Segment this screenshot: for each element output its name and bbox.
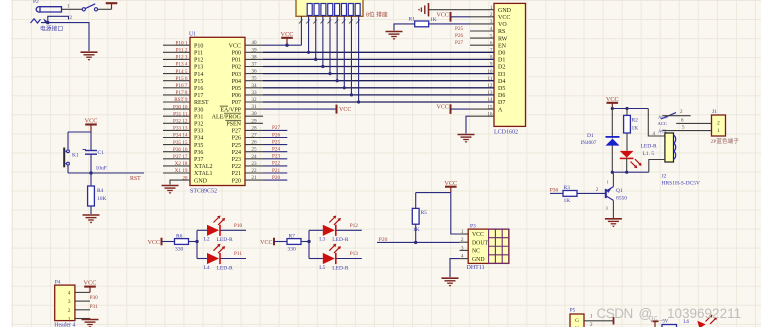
svg-text:LED-R: LED-R — [641, 143, 658, 149]
svg-text:P31 11: P31 11 — [173, 111, 188, 117]
svg-text:ACC: ACC — [658, 121, 667, 126]
svg-text:P10 1: P10 1 — [176, 40, 188, 46]
svg-text:R6: R6 — [176, 234, 183, 240]
resistor R5 — [412, 193, 427, 243]
power VCC (LCD pin15 backlight) — [437, 104, 471, 114]
resistor R4 — [88, 173, 107, 214]
svg-text:VCC: VCC — [84, 280, 97, 287]
svg-text:P2: P2 — [33, 0, 39, 5]
wire LCD pin16 to ground — [466, 116, 470, 133]
svg-text:P35 15: P35 15 — [173, 140, 188, 146]
svg-text:ALE/PROG: ALE/PROG — [212, 114, 242, 120]
svg-text:R1: R1 — [409, 17, 416, 23]
wire to P11 — [221, 251, 247, 258]
svg-text:P27: P27 — [232, 129, 241, 135]
svg-text:P02: P02 — [232, 65, 241, 71]
svg-text:Q1: Q1 — [616, 188, 623, 194]
power VCC (R7 feed) — [260, 238, 287, 246]
svg-text:GND: GND — [194, 178, 208, 184]
svg-text:P04: P04 — [232, 79, 241, 85]
power VCC (LCD pin2, sideways) — [437, 12, 471, 22]
sensor P3 DHT11 — [467, 224, 510, 271]
svg-text:LED-R: LED-R — [217, 237, 234, 243]
svg-text:P30: P30 — [90, 295, 98, 301]
svg-text:P13: P13 — [350, 251, 358, 257]
svg-text:VCC: VCC — [437, 12, 449, 18]
svg-text:P11 2: P11 2 — [176, 48, 188, 54]
svg-text:P32: P32 — [194, 122, 203, 128]
svg-text:1K: 1K — [564, 198, 571, 204]
svg-text:D7: D7 — [498, 100, 505, 106]
wires resistor pack to bus — [301, 16, 358, 102]
svg-text:P12: P12 — [194, 58, 203, 64]
connector P2 power jack — [33, 0, 62, 12]
junction — [285, 44, 288, 47]
svg-text:P26: P26 — [272, 132, 280, 138]
svg-text:P36 16: P36 16 — [173, 147, 188, 153]
svg-text:10: 10 — [487, 69, 493, 75]
svg-text:330: 330 — [288, 247, 297, 253]
wire U1 pin31 EA/VPP to VCC — [263, 108, 337, 110]
svg-text:D6: D6 — [498, 93, 505, 99]
svg-text:RW: RW — [498, 36, 508, 42]
LCD pin names and numbers — [487, 5, 511, 118]
svg-text:10K: 10K — [97, 196, 107, 202]
svg-text:D1: D1 — [587, 133, 594, 139]
svg-text:电源接口: 电源接口 — [40, 25, 63, 33]
svg-text:L5: L5 — [319, 265, 325, 271]
svg-text:VCC: VCC — [444, 180, 457, 187]
svg-text:VCC: VCC — [498, 15, 510, 21]
power VCC (top left, text cut off) — [106, 3, 118, 9]
wire VCC rail to K1 — [68, 132, 91, 149]
svg-text:VO: VO — [498, 22, 507, 28]
svg-text:VCC: VCC — [437, 105, 449, 111]
svg-text:1K: 1K — [413, 227, 420, 233]
svg-text:13: 13 — [487, 90, 493, 96]
net label P36 — [550, 187, 559, 193]
power symbol (cut off) — [652, 320, 669, 328]
svg-text:L1. 5: L1. 5 — [643, 151, 655, 157]
svg-text:RST 9: RST 9 — [174, 97, 188, 103]
svg-text:P37 17: P37 17 — [173, 154, 188, 160]
svg-text:9: 9 — [490, 62, 493, 68]
svg-text:P14: P14 — [194, 72, 203, 78]
svg-text:P24: P24 — [272, 147, 280, 153]
svg-text:P13 4: P13 4 — [176, 62, 188, 68]
svg-text:P26: P26 — [455, 33, 463, 39]
svg-text:X2 18: X2 18 — [175, 161, 188, 167]
svg-text:D5: D5 — [498, 86, 505, 92]
P4 pin stubs — [75, 292, 90, 318]
svg-text:P23: P23 — [232, 157, 241, 163]
svg-text:K1: K1 — [72, 153, 79, 159]
svg-text:GND: GND — [472, 257, 485, 263]
svg-text:VCC: VCC — [85, 118, 98, 125]
svg-text:EN: EN — [498, 43, 507, 49]
wire to P10 — [221, 223, 247, 230]
svg-text:P05: P05 — [232, 86, 241, 92]
LED L3 — [319, 216, 349, 244]
net label P20 — [379, 237, 388, 243]
resistor R6 330 — [175, 234, 198, 253]
wire top rail — [612, 108, 648, 110]
wires U1 pins 28-21 with net labels P27..P20 — [263, 125, 287, 181]
svg-text:11: 11 — [488, 76, 493, 82]
svg-text:P11: P11 — [234, 251, 242, 257]
LED L1 (relay indicator) — [620, 143, 657, 172]
svg-text:P30: P30 — [194, 107, 203, 113]
svg-text:EA/VPP: EA/VPP — [220, 107, 241, 113]
watermark CSDN — [597, 306, 742, 323]
svg-text:PSEN: PSEN — [226, 122, 241, 128]
wire LCD pin1 to ground — [429, 9, 470, 11]
svg-text:3: 3 — [68, 299, 71, 305]
svg-text:J2: J2 — [662, 174, 667, 180]
svg-text:REST: REST — [194, 100, 209, 106]
switch S1 — [82, 4, 97, 11]
svg-text:7: 7 — [490, 48, 493, 54]
svg-text:P22: P22 — [272, 161, 280, 167]
svg-text:P14 5: P14 5 — [176, 69, 188, 75]
svg-text:P36: P36 — [194, 150, 203, 156]
wire LED branch — [309, 230, 323, 258]
svg-text:P30 10: P30 10 — [173, 104, 188, 110]
wire U1 pin40 to resistor pack common — [263, 44, 301, 46]
U1 pin names — [194, 43, 242, 184]
label 电源接口 — [40, 25, 63, 33]
svg-text:C1: C1 — [98, 150, 105, 156]
svg-text:2P蓝色端子: 2P蓝色端子 — [711, 137, 740, 145]
svg-text:4: 4 — [68, 290, 71, 296]
svg-text:R2: R2 — [632, 118, 639, 124]
svg-text:P01: P01 — [232, 58, 241, 64]
svg-text:P22: P22 — [232, 164, 241, 170]
wire K1 bottom — [68, 165, 91, 173]
svg-text:HRS1H-S-DC5V: HRS1H-S-DC5V — [662, 180, 701, 186]
svg-text:P03: P03 — [232, 72, 241, 78]
svg-text:P37: P37 — [194, 157, 203, 163]
svg-text:P00: P00 — [232, 51, 241, 57]
junction — [46, 21, 49, 24]
svg-text:P25: P25 — [272, 139, 280, 145]
wire switch to VCC — [98, 8, 112, 10]
LED L2 — [204, 216, 234, 244]
pin 2/3 of P2 spring contact — [31, 18, 49, 23]
resistor R7 330 — [287, 234, 309, 253]
svg-text:P11: P11 — [194, 51, 203, 57]
svg-text:12: 12 — [487, 83, 493, 89]
svg-text:DHT11: DHT11 — [467, 265, 485, 271]
svg-text:P5: P5 — [570, 307, 576, 313]
svg-text:1: 1 — [717, 128, 720, 134]
svg-text:P12 3: P12 3 — [176, 55, 188, 61]
svg-text:2: 2 — [717, 120, 720, 126]
svg-text:VCC: VCC — [260, 240, 272, 246]
ground (power entry) — [81, 52, 98, 61]
label 2P蓝色端子 — [711, 137, 740, 145]
wire P2 pin3 loop — [48, 16, 73, 22]
svg-text:P33: P33 — [194, 129, 203, 135]
svg-text:14: 14 — [487, 97, 493, 103]
wire to P12 — [336, 223, 362, 230]
svg-text:R5: R5 — [421, 210, 428, 216]
svg-text:CSDN: CSDN — [597, 306, 633, 321]
svg-text:D0: D0 — [498, 51, 505, 57]
svg-text:10uF: 10uF — [96, 166, 107, 172]
svg-text:P12: P12 — [350, 223, 358, 229]
relay J2 contacts — [658, 110, 712, 134]
ground (R1) — [386, 32, 403, 41]
svg-text:RST: RST — [130, 176, 141, 182]
net label RST — [130, 176, 141, 182]
svg-text:P17 8: P17 8 — [176, 90, 188, 96]
svg-text:P13: P13 — [194, 65, 203, 71]
svg-text:J1: J1 — [712, 109, 717, 115]
svg-text:A: A — [498, 107, 503, 113]
svg-text:P31: P31 — [194, 114, 203, 120]
svg-text:P33 13: P33 13 — [173, 126, 188, 132]
svg-text:P26: P26 — [232, 136, 241, 142]
svg-text:P15: P15 — [194, 79, 203, 85]
transistor Q1 8550 — [606, 172, 628, 218]
push button K1 — [64, 148, 79, 168]
svg-text:P25: P25 — [232, 143, 241, 149]
wire bottom rail — [612, 171, 649, 173]
P5 pin 1 wire — [584, 315, 614, 329]
wire VCC rail — [416, 193, 460, 234]
svg-text:D4: D4 — [498, 79, 505, 85]
svg-text:D3: D3 — [498, 72, 505, 78]
svg-text:R4: R4 — [97, 188, 104, 194]
junctions resistor pack to bus — [307, 51, 360, 104]
svg-text:NC: NC — [472, 249, 480, 255]
svg-text:L3: L3 — [319, 237, 325, 243]
svg-text:LED-R: LED-R — [332, 265, 349, 271]
ground (U1 pin 20) — [162, 186, 179, 195]
svg-text:P34 14: P34 14 — [173, 133, 188, 139]
svg-text:STC89C52: STC89C52 — [190, 189, 217, 195]
svg-text:P34: P34 — [194, 136, 203, 142]
svg-text:XTAL2: XTAL2 — [194, 164, 213, 170]
ground (Q1) — [605, 219, 622, 228]
U1 right pin numbers 40..21 — [251, 40, 257, 181]
ground (LCD pin1, sideways) — [418, 3, 429, 16]
svg-text:Header 4: Header 4 — [54, 322, 75, 327]
svg-text:330: 330 — [175, 247, 184, 253]
wire P2 to ground — [41, 23, 89, 51]
ground (DHT11) — [442, 278, 459, 287]
svg-text:L2: L2 — [204, 237, 210, 243]
svg-text:P23: P23 — [272, 154, 280, 160]
power VCC (P4) — [84, 280, 97, 293]
wire LED branch — [197, 230, 207, 258]
power VCC (EA/VPP) sideways — [337, 105, 352, 114]
resistor pack RP1 (8位排阻 socket) — [296, 0, 363, 16]
svg-text:P16: P16 — [194, 86, 203, 92]
junction — [611, 171, 629, 174]
junction RST node — [89, 171, 92, 174]
junction — [611, 107, 629, 110]
pin 1 of P2 — [62, 5, 83, 10]
connector P5 (cut off) — [570, 307, 585, 332]
svg-text:LED-R: LED-R — [217, 265, 234, 271]
power VCC (R6 feed) — [148, 238, 175, 246]
svg-text:D2: D2 — [498, 65, 505, 71]
bus wires P00..P07 from U1 to LCD — [263, 52, 494, 102]
svg-text:P36: P36 — [550, 187, 559, 193]
capacitor C1 — [83, 132, 107, 173]
svg-text:IN4007: IN4007 — [581, 140, 597, 146]
svg-text:1K: 1K — [430, 17, 437, 23]
svg-text:8位 排座: 8位 排座 — [366, 11, 388, 19]
diode D1 IN4007 — [581, 109, 620, 173]
svg-text:P4: P4 — [55, 280, 61, 286]
ground (LCD pin16) — [458, 135, 475, 144]
ground (reset) — [83, 215, 100, 224]
svg-text:XTAL1: XTAL1 — [194, 171, 213, 177]
LED L6 (cut off) — [683, 315, 717, 329]
svg-text:P15 6: P15 6 — [176, 76, 188, 82]
svg-text:1K: 1K — [632, 126, 639, 132]
svg-text:VCC: VCC — [606, 96, 619, 103]
LCD module LCD1602 — [494, 3, 526, 135]
svg-text:8550: 8550 — [616, 196, 627, 202]
svg-text:X1 19: X1 19 — [175, 168, 188, 174]
svg-text:VCC: VCC — [281, 31, 294, 38]
LED L4 — [204, 244, 234, 272]
svg-text:P10: P10 — [234, 223, 242, 229]
svg-text:VCC: VCC — [148, 240, 160, 246]
svg-text:P16 7: P16 7 — [176, 83, 188, 89]
power VCC (DHT11) — [444, 180, 457, 193]
svg-text:GND: GND — [498, 8, 512, 14]
svg-text:DOUT: DOUT — [472, 240, 489, 246]
svg-text:VCC: VCC — [229, 43, 241, 49]
svg-text:P32 12: P32 12 — [173, 119, 188, 125]
net labels P30 P31 — [90, 295, 98, 310]
U1 left pin stubs with net labels P10..P17 RST P30..P37 X2 X1 — [163, 40, 190, 181]
power VCC (U1 pin 40) — [281, 31, 294, 45]
svg-text:G: G — [575, 318, 579, 324]
U1 right pin stubs — [245, 45, 263, 180]
net labels P25 P26 P27 at LCD — [455, 26, 463, 46]
resistor R2 1K — [624, 109, 639, 151]
label 8位排阻 — [366, 11, 388, 19]
connector J1 — [712, 109, 726, 136]
svg-text:P21: P21 — [232, 171, 241, 177]
svg-text:P10: P10 — [194, 43, 203, 49]
svg-text:U1: U1 — [189, 31, 196, 37]
resistor pack pin ticks — [299, 20, 360, 24]
wire to P13 — [336, 251, 362, 258]
svg-text:P25: P25 — [455, 26, 463, 32]
svg-text:P31: P31 — [90, 304, 98, 310]
svg-text:_1039692211: _1039692211 — [659, 306, 742, 321]
wire P20 to DHT11 DOUT — [377, 241, 460, 243]
module (cut off) — [662, 325, 677, 331]
MCU U1 STC89C52 — [189, 31, 245, 194]
svg-text:qc: qc — [649, 314, 657, 323]
junction — [195, 240, 198, 243]
junction — [414, 241, 417, 244]
svg-text:P27: P27 — [455, 40, 463, 46]
svg-text:VCC: VCC — [339, 107, 351, 113]
svg-text:P35: P35 — [194, 143, 203, 149]
svg-text:8: 8 — [490, 55, 493, 61]
svg-text:P06: P06 — [232, 93, 241, 99]
svg-text:P20: P20 — [232, 178, 241, 184]
LCD pin stubs — [470, 10, 494, 117]
svg-text:R3: R3 — [564, 185, 571, 191]
svg-text:RS: RS — [498, 29, 505, 35]
svg-text:R7: R7 — [289, 234, 296, 240]
connector P4 Header 4 — [54, 280, 75, 329]
svg-text:D1: D1 — [498, 58, 505, 64]
resistor R3 1K — [550, 185, 606, 204]
junction — [307, 240, 310, 243]
svg-text:P17: P17 — [194, 93, 203, 99]
power VCC (reset) — [85, 118, 98, 133]
wire RST — [91, 172, 144, 174]
svg-text:P24: P24 — [232, 150, 241, 156]
svg-text:L4: L4 — [204, 265, 210, 271]
svg-text:P27: P27 — [272, 125, 280, 131]
relay J2 coil — [648, 109, 700, 187]
svg-text:1: 1 — [68, 317, 71, 323]
svg-text:LED-R: LED-R — [332, 237, 349, 243]
wire U1 GND pin 20 — [170, 180, 190, 184]
svg-text:LCD1602: LCD1602 — [494, 130, 518, 136]
wire DHT11 GND — [450, 259, 460, 277]
resistor R1 — [394, 17, 470, 31]
svg-text:P3: P3 — [470, 224, 476, 230]
LED L5 — [319, 244, 349, 272]
svg-text:VCC: VCC — [472, 232, 484, 238]
svg-text:2: 2 — [68, 308, 71, 314]
power VCC (relay) — [606, 96, 619, 109]
DHT11 pin stubs and numbers — [460, 230, 469, 260]
svg-text:P20: P20 — [272, 175, 280, 181]
ground (P4) — [82, 319, 99, 329]
svg-text:P21: P21 — [272, 168, 280, 174]
svg-text:P07: P07 — [232, 100, 241, 106]
